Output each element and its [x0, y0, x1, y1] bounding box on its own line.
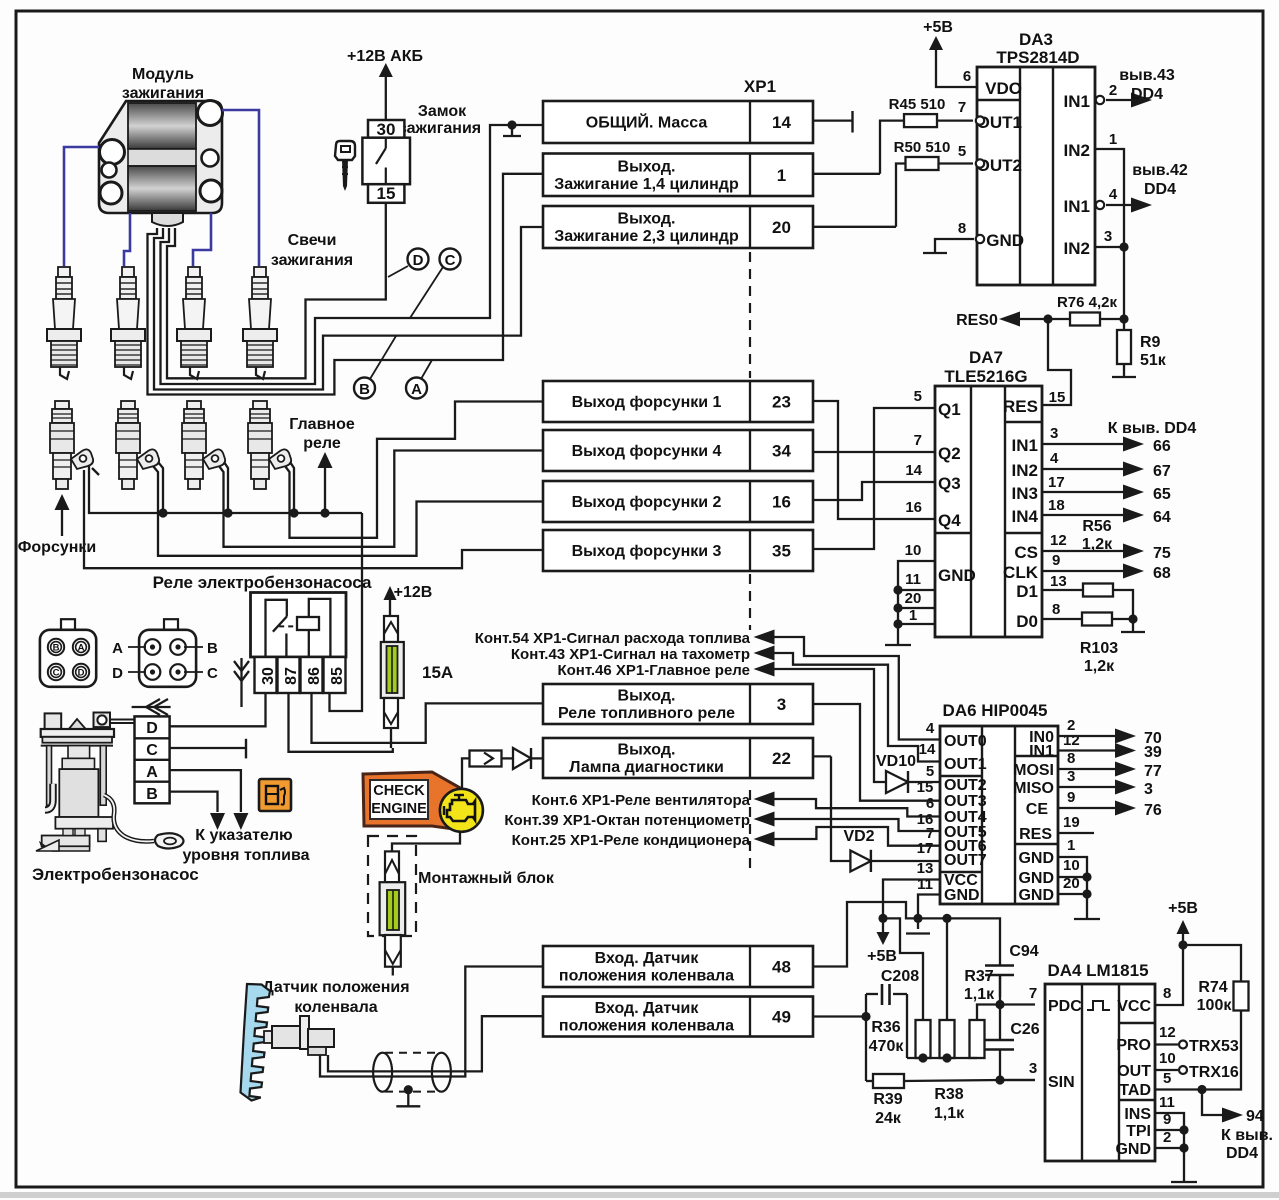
svg-text:3: 3: [1104, 228, 1112, 245]
svg-text:Лампа диагностики: Лампа диагностики: [569, 759, 724, 776]
svg-text:Выход форсунки 4: Выход форсунки 4: [572, 443, 722, 460]
svg-text:35: 35: [772, 542, 791, 561]
svg-text:5: 5: [914, 388, 922, 405]
svg-text:3: 3: [1029, 1060, 1037, 1077]
svg-text:B: B: [359, 381, 370, 398]
DA6 MISO pin3 to 3: [1058, 786, 1120, 788]
svg-text:CS: CS: [1014, 543, 1038, 562]
svg-text:ОБЩИЙ. Масса: ОБЩИЙ. Масса: [586, 113, 708, 132]
svg-text:Конт.43 ХР1-Сигнал на тахометр: Конт.43 ХР1-Сигнал на тахометр: [511, 646, 750, 663]
DA3 IN1 pin4 output выв.42 DD4: [1096, 201, 1104, 209]
svg-text:OUT2: OUT2: [944, 777, 987, 794]
fuse F2 holder bottom: [385, 935, 401, 967]
fuse F1 15A body: [381, 642, 404, 698]
spark plug 2: [111, 267, 145, 379]
+5V branch to R36: [883, 918, 923, 1020]
svg-text:4: 4: [1109, 186, 1118, 203]
svg-text:К указателю: К указателю: [195, 827, 293, 844]
svg-text:Конт.54 ХР1-Сигнал расхода топ: Конт.54 ХР1-Сигнал расхода топлива: [475, 630, 751, 647]
svg-text:DD4: DD4: [1131, 86, 1163, 103]
connector XP1 pin 22 box Лампа диагностики: [543, 738, 813, 778]
+12V arrow at fuse: [384, 586, 397, 600]
spark plug 4: [243, 267, 277, 379]
svg-text:R56: R56: [1082, 518, 1111, 535]
svg-text:13: 13: [917, 860, 934, 877]
svg-text:VCC: VCC: [1117, 998, 1151, 1015]
connector XP1 pin 48 box Датчик коленвала: [543, 946, 813, 987]
resistor R38: [940, 1020, 955, 1058]
svg-text:ENGINE: ENGINE: [371, 801, 427, 817]
svg-text:R9: R9: [1140, 334, 1161, 351]
svg-text:4: 4: [1050, 450, 1059, 467]
svg-text:VD10: VD10: [876, 753, 916, 770]
DA6 MOSI pin8 to 77: [1058, 768, 1120, 770]
box49 node rail: [865, 994, 867, 1081]
wire TAD to 94 DD4: [1202, 1090, 1225, 1116]
svg-text:+12В АКБ: +12В АКБ: [347, 48, 423, 65]
svg-text:A: A: [146, 764, 158, 781]
connector XP1 pin 35 box Выход форсунки 3: [543, 530, 813, 571]
svg-text:коленвала: коленвала: [294, 999, 377, 1016]
svg-text:Вход. Датчик: Вход. Датчик: [595, 1000, 700, 1017]
svg-text:C26: C26: [1010, 1021, 1039, 1038]
wire relay pin30 to pump connector D: [170, 693, 266, 726]
relay K fuel pump relay body: [251, 593, 347, 658]
svg-text:IN1: IN1: [1029, 743, 1054, 760]
fuse F2 body: [380, 882, 406, 935]
svg-text:Главное: Главное: [289, 416, 355, 433]
svg-text:+5В: +5В: [1168, 900, 1198, 917]
svg-text:30: 30: [260, 667, 277, 685]
DA6 IN0 pin2 to 70: [1058, 735, 1120, 737]
svg-text:14: 14: [905, 462, 922, 479]
svg-text:48: 48: [772, 958, 791, 977]
svg-text:IN2: IN2: [1064, 141, 1090, 160]
DA3 IN1 pin2 output выв.43 DD4: [1096, 96, 1104, 104]
svg-text:К выв. DD4: К выв. DD4: [1108, 420, 1197, 437]
svg-text:VD2: VD2: [843, 828, 874, 845]
svg-text:1: 1: [777, 166, 786, 185]
svg-text:76: 76: [1144, 802, 1162, 819]
svg-text:DD4: DD4: [1226, 1145, 1258, 1162]
svg-text:6: 6: [963, 68, 971, 85]
fuse block dashed box Монтажный блок: [368, 836, 416, 936]
svg-text:зажигания: зажигания: [399, 120, 481, 137]
fuel pump Электробензонасос illustration: [36, 713, 184, 852]
connector XP1 pin 3 box Реле топливного реле: [543, 684, 813, 724]
svg-text:Выход.: Выход.: [618, 211, 676, 228]
connector XP1 pin 1 box Зажигание 1,4: [543, 154, 813, 197]
resistor R37: [970, 1020, 985, 1058]
svg-text:GND: GND: [1018, 870, 1054, 887]
shield ground: [404, 1085, 413, 1094]
svg-text:B: B: [207, 640, 218, 657]
svg-text:3: 3: [1050, 425, 1058, 442]
DA6 RES pin19: [1058, 832, 1094, 834]
svg-text:IN1: IN1: [1064, 92, 1090, 111]
wire label circle A: [406, 378, 427, 399]
fuse F1 15A holder top: [384, 616, 398, 642]
fuse F2 holder top: [385, 851, 399, 882]
svg-text:A: A: [411, 381, 422, 398]
svg-text:30: 30: [377, 120, 396, 139]
PDC node: [999, 975, 1001, 1005]
svg-text:TPS2814D: TPS2814D: [996, 48, 1079, 67]
svg-text:положения коленвала: положения коленвала: [559, 968, 734, 985]
chevron symbol above DCAB: [132, 706, 171, 708]
sensor wires to boxes 48 49: [328, 1016, 543, 1071]
svg-text:К выв.: К выв.: [1221, 1127, 1273, 1144]
svg-text:GND: GND: [986, 231, 1024, 250]
wire box22 to VD2: [813, 755, 831, 757]
bottom scan strip: [0, 1192, 1279, 1198]
injector 3: [182, 401, 225, 489]
wire label circle D: [408, 249, 429, 270]
main relay feed arrow: [318, 452, 333, 468]
lamp HL check engine: [440, 789, 483, 832]
arrow 39 to DA6 OUT5: [754, 812, 775, 827]
DA4 INS TPI GND tie to ground: [1155, 1113, 1184, 1148]
svg-text:R45 510: R45 510: [889, 96, 946, 113]
IC DA4 body: [1045, 984, 1155, 1161]
svg-text:R76 4,2к: R76 4,2к: [1057, 294, 1118, 311]
injector2 connector wires: [158, 462, 163, 513]
svg-text:GND: GND: [938, 566, 976, 585]
svg-text:R36: R36: [871, 1019, 900, 1036]
relay pin 85: [324, 657, 346, 693]
connector XP1 pin 34 box Выход форсунки 4: [543, 430, 813, 471]
svg-text:1: 1: [1109, 131, 1117, 148]
svg-text:RES: RES: [1019, 826, 1052, 843]
svg-text:8: 8: [958, 220, 966, 237]
svg-text:D: D: [112, 665, 123, 682]
svg-text:7: 7: [914, 432, 922, 449]
svg-text:CLK: CLK: [1003, 563, 1039, 582]
svg-text:24к: 24к: [875, 1110, 902, 1127]
svg-text:реле: реле: [303, 435, 341, 452]
svg-text:DA4 LM1815: DA4 LM1815: [1047, 961, 1148, 980]
svg-text:CHECK: CHECK: [373, 783, 425, 799]
wire A Зажигание 1,4 to module: [148, 174, 544, 395]
svg-text:Зажигание 1,4 цилиндр: Зажигание 1,4 цилиндр: [554, 176, 739, 193]
relay coil: [279, 625, 297, 627]
svg-text:выв.43: выв.43: [1119, 67, 1175, 84]
svg-text:8: 8: [1052, 601, 1060, 618]
svg-text:39: 39: [1144, 744, 1162, 761]
svg-text:IN4: IN4: [1012, 507, 1039, 526]
svg-text:DA6 HIP0045: DA6 HIP0045: [943, 701, 1048, 720]
resistor R9 51к: [1123, 319, 1125, 330]
pump connector column DCAB: [135, 716, 170, 803]
svg-text:PDC: PDC: [1048, 998, 1082, 1015]
svg-text:5: 5: [926, 763, 934, 780]
connector X1 rear view: [61, 619, 75, 630]
svg-text:OUT: OUT: [1117, 1063, 1151, 1080]
wire label circle B: [354, 378, 375, 399]
svg-text:3: 3: [1067, 768, 1075, 785]
injectors arrow: [55, 494, 70, 510]
svg-text:Свечи: Свечи: [288, 232, 337, 249]
svg-text:20: 20: [905, 590, 922, 607]
svg-text:+5В: +5В: [867, 948, 897, 965]
svg-text:12: 12: [1063, 732, 1080, 749]
wire box3 right to R50 via 896: [813, 226, 896, 228]
svg-text:D: D: [78, 668, 85, 679]
svg-text:DD4: DD4: [1144, 181, 1176, 198]
wire box49 to rail: [813, 1015, 866, 1017]
wire relay pin87 to fuse: [289, 693, 393, 752]
arrow 25 to DA6 OUT6: [754, 832, 775, 847]
HT wire plug3: [193, 213, 211, 266]
svg-text:11: 11: [1159, 1094, 1175, 1111]
svg-text:зажигания: зажигания: [271, 252, 353, 269]
svg-text:49: 49: [772, 1008, 791, 1027]
arrow 6 to DA6 OUT4: [754, 792, 775, 807]
svg-text:18: 18: [1048, 497, 1065, 514]
svg-text:TRX53: TRX53: [1189, 1038, 1239, 1055]
ignition key icon: [335, 141, 355, 160]
svg-text:R38: R38: [934, 1086, 963, 1103]
svg-text:R37: R37: [964, 968, 993, 985]
svg-text:A: A: [112, 640, 123, 657]
svg-text:1,2к: 1,2к: [1084, 658, 1115, 675]
svg-text:5: 5: [1163, 1070, 1171, 1087]
injector1 signal wire: [84, 470, 543, 568]
svg-text:12: 12: [1050, 532, 1067, 549]
svg-text:MOSI: MOSI: [1013, 762, 1054, 779]
svg-text:17: 17: [1048, 474, 1065, 491]
ignition switch body: [362, 138, 410, 185]
crank position sensor body: [264, 1016, 334, 1055]
chassis ground chevrons: [240, 658, 242, 707]
arrow 43 to DA6 OUT1: [754, 646, 775, 661]
svg-text:9: 9: [1067, 789, 1075, 806]
DA6 CE pin9 to 76: [1058, 807, 1120, 809]
svg-text:B: B: [53, 643, 60, 654]
wire B to fuel gauge arrow: [170, 792, 218, 812]
svg-text:Выход форсунки 1: Выход форсунки 1: [572, 394, 722, 411]
svg-text:85: 85: [329, 667, 346, 685]
wire box20 to R50 OUT2: [896, 164, 905, 227]
svg-text:TPI: TPI: [1126, 1123, 1151, 1140]
injector supply bus: [89, 465, 362, 513]
svg-text:RES: RES: [1003, 397, 1038, 416]
svg-text:Замок: Замок: [418, 103, 467, 120]
svg-text:87: 87: [283, 667, 300, 685]
wire RES0 to DA7 RES: [1042, 319, 1071, 405]
svg-text:RES0: RES0: [956, 312, 998, 329]
svg-text:Конт.25 ХР1-Реле кондиционера: Конт.25 ХР1-Реле кондиционера: [512, 832, 751, 849]
svg-text:5: 5: [958, 143, 966, 160]
svg-text:Монтажный блок: Монтажный блок: [418, 870, 555, 887]
svg-text:OUT7: OUT7: [944, 852, 987, 869]
XP1 dashed connector line: [749, 252, 751, 378]
toothed wheel reluctor: [241, 984, 271, 1101]
relay pin 86: [301, 657, 323, 693]
injector4 connector wires: [290, 462, 294, 513]
wire label circle C: [440, 249, 461, 270]
svg-text:D: D: [146, 720, 158, 737]
svg-text:IN2: IN2: [1012, 461, 1038, 480]
svg-text:8: 8: [1163, 985, 1171, 1002]
svg-text:12: 12: [1159, 1024, 1176, 1041]
arrow 54 to DA6 OUT0: [754, 630, 775, 645]
spark plug 1: [47, 267, 81, 379]
svg-text:OUT0: OUT0: [944, 733, 987, 750]
IC DA3 body: [977, 67, 1095, 285]
svg-text:VDO: VDO: [985, 79, 1022, 98]
relay pin 87: [278, 657, 300, 693]
injector 1: [50, 401, 93, 489]
svg-text:Конт.46 ХР1-Главное реле: Конт.46 ХР1-Главное реле: [557, 662, 750, 679]
DA4 pulse symbol: [1087, 1001, 1110, 1010]
svg-text:Q2: Q2: [938, 444, 961, 463]
svg-text:зажигания: зажигания: [122, 85, 204, 102]
HT wire plug2: [124, 213, 130, 266]
svg-text:6: 6: [926, 795, 934, 812]
svg-text:4: 4: [926, 720, 935, 737]
svg-text:OUT1: OUT1: [944, 756, 987, 773]
svg-text:68: 68: [1153, 565, 1171, 582]
resistor R36: [916, 1020, 931, 1058]
svg-text:7: 7: [1029, 985, 1037, 1002]
svg-text:3: 3: [1144, 781, 1153, 798]
connector XP1 pin 23 box Выход форсунки 1: [543, 381, 813, 422]
fuse F1 15A holder bottom: [384, 698, 398, 728]
svg-text:GND: GND: [1018, 887, 1054, 904]
svg-text:GND: GND: [944, 887, 980, 904]
indicator CHECK ENGINE housing: [363, 772, 462, 830]
+12V battery arrow: [379, 63, 393, 77]
svg-text:C: C: [445, 252, 456, 269]
svg-text:51к: 51к: [1140, 352, 1167, 369]
svg-text:+12В: +12В: [394, 584, 433, 601]
wire A to fuel gauge arrow: [170, 770, 241, 812]
svg-text:Электробензонасос: Электробензонасос: [32, 865, 199, 884]
svg-text:DA3: DA3: [1019, 30, 1053, 49]
DA6 VCC pin13 wire to +5V: [883, 880, 940, 919]
wire pump to connector D: [110, 722, 135, 724]
svg-text:SIN: SIN: [1048, 1074, 1075, 1091]
wire box1 to R45 OUT1: [880, 121, 903, 174]
wire box48 to gnd node: [813, 902, 917, 967]
svg-text:TLE5216G: TLE5216G: [944, 367, 1027, 386]
svg-text:19: 19: [1063, 814, 1080, 831]
svg-text:16: 16: [772, 493, 791, 512]
svg-text:9: 9: [1052, 552, 1060, 569]
svg-text:D0: D0: [1016, 612, 1038, 631]
svg-text:10: 10: [1159, 1050, 1176, 1067]
HT wire plug1: [64, 147, 99, 266]
svg-text:1: 1: [909, 607, 917, 624]
svg-text:1,1к: 1,1к: [964, 986, 995, 1003]
DA4 SIN wire: [1000, 1079, 1035, 1081]
svg-text:R103: R103: [1080, 640, 1118, 657]
svg-text:Зажигание 2,3 цилиндр: Зажигание 2,3 цилиндр: [554, 228, 739, 245]
svg-text:C: C: [207, 665, 218, 682]
svg-text:выв.42: выв.42: [1132, 162, 1188, 179]
svg-text:470к: 470к: [869, 1038, 905, 1055]
svg-text:16: 16: [905, 499, 922, 516]
svg-text:IN3: IN3: [1012, 484, 1038, 503]
injector 4: [248, 401, 291, 489]
svg-text:Датчик положения: Датчик положения: [262, 979, 409, 996]
svg-text:XP1: XP1: [744, 77, 776, 96]
connector XP1 pin 49 box Датчик коленвала: [543, 997, 813, 1037]
shielded cable symbol: [373, 1053, 392, 1092]
diode VD lamp: [502, 757, 514, 759]
HT wire plug4: [222, 110, 259, 266]
svg-text:86: 86: [306, 667, 323, 685]
svg-text:IN1: IN1: [1064, 197, 1090, 216]
svg-text:GND: GND: [1018, 850, 1054, 867]
connector XP1 pin 16 box Выход форсунки 2: [543, 481, 813, 522]
relay pin 30: [255, 657, 277, 693]
svg-text:17: 17: [917, 840, 934, 857]
resistor R39 24к: [866, 1080, 873, 1082]
DA4 OUT pin10 TRX16: [1155, 1069, 1178, 1071]
svg-text:Реле электробензонасоса: Реле электробензонасоса: [153, 573, 372, 592]
injector3 connector wires: [224, 462, 228, 513]
svg-text:IN1: IN1: [1012, 436, 1038, 455]
svg-text:CE: CE: [1026, 801, 1049, 818]
svg-text:77: 77: [1144, 763, 1162, 780]
ground at масса junction: [507, 120, 516, 129]
ignition module coil pack: [99, 101, 223, 227]
svg-text:PRO: PRO: [1116, 1037, 1151, 1054]
svg-text:IN2: IN2: [1064, 239, 1090, 258]
svg-text:10: 10: [905, 542, 922, 559]
svg-text:65: 65: [1153, 486, 1171, 503]
svg-text:Выход форсунки 2: Выход форсунки 2: [572, 494, 722, 511]
IC DA6 body: [940, 726, 1058, 904]
svg-text:DA7: DA7: [969, 348, 1003, 367]
svg-text:D1: D1: [1016, 582, 1038, 601]
svg-text:Выход.: Выход.: [618, 742, 676, 759]
svg-text:11: 11: [905, 571, 921, 588]
svg-text:R39: R39: [873, 1091, 902, 1108]
wire lamp to fuse2: [392, 831, 460, 851]
ignition switch 15 terminal: [368, 184, 404, 203]
svg-text:Q1: Q1: [938, 400, 961, 419]
svg-text:94: 94: [1246, 1108, 1264, 1125]
svg-text:уровня топлива: уровня топлива: [182, 847, 309, 864]
svg-text:R50 510: R50 510: [894, 139, 951, 156]
wire lamp to diode box: [462, 758, 470, 789]
wire C масса to module: [161, 125, 544, 384]
svg-text:+5В: +5В: [923, 19, 953, 36]
DA6 GND right pins to ground: [1058, 857, 1087, 919]
svg-text:14: 14: [919, 741, 936, 758]
svg-text:10: 10: [1063, 857, 1080, 874]
wire relay pin86 to box3: [312, 693, 544, 743]
svg-text:64: 64: [1153, 509, 1171, 526]
svg-text:C208: C208: [881, 968, 919, 985]
svg-text:66: 66: [1153, 438, 1171, 455]
connector XP1 pin 20 box Зажигание 2,3: [543, 206, 813, 248]
bus down to relay pin 85: [330, 513, 363, 711]
svg-text:C: C: [53, 668, 60, 679]
svg-text:Модуль: Модуль: [132, 66, 194, 83]
svg-text:C: C: [146, 742, 158, 759]
wire box2 right to R45 via 880: [813, 173, 880, 175]
svg-text:8: 8: [1067, 750, 1075, 767]
svg-text:13: 13: [1050, 573, 1067, 590]
svg-text:7: 7: [958, 99, 966, 116]
svg-text:20: 20: [772, 218, 791, 237]
gnd node dots and ground: [913, 914, 922, 923]
svg-text:Выход.: Выход.: [618, 688, 676, 705]
